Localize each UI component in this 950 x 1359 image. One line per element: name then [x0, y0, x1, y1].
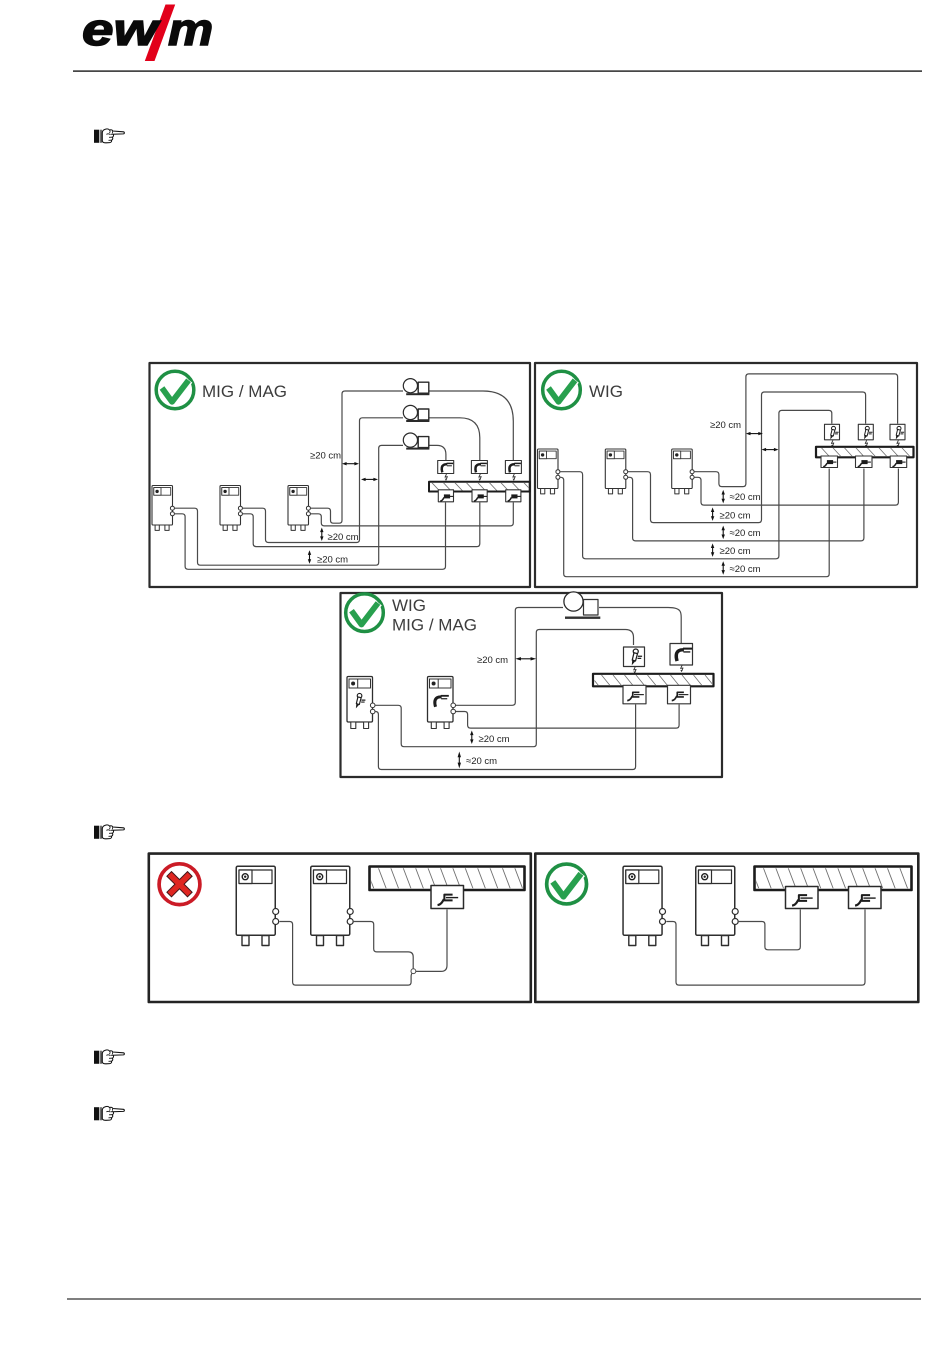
svg-text:≈20 cm: ≈20 cm: [730, 564, 761, 575]
clamp box 1: [821, 456, 838, 468]
wire clamp lead: [416, 910, 447, 972]
clamp box MIG: [668, 685, 691, 704]
header rule: [73, 70, 922, 71]
torch box WIG: [624, 647, 645, 667]
clamp box 3: [506, 490, 521, 502]
workpiece bar: [751, 867, 912, 891]
wire ps3 work lead: [311, 503, 514, 526]
junction node: [411, 969, 416, 974]
wire ps2 work lead: [353, 922, 413, 969]
power source 1: [152, 486, 174, 531]
spark arrow 2: [865, 440, 868, 446]
dim arrow bottom 2: [308, 550, 311, 564]
svg-text:WIG: WIG: [589, 382, 623, 401]
hand note icon 1: [94, 129, 124, 143]
svg-text:≥20 cm: ≥20 cm: [317, 554, 348, 565]
clamp box 1: [786, 887, 819, 909]
wire feeder3 to torch1: [429, 445, 446, 460]
wire ps3 torch cable: [694, 374, 897, 487]
panel wrong setup: [149, 854, 531, 1002]
power source 3: [672, 449, 694, 494]
wire feeder2 to torch2: [429, 418, 480, 460]
error cross icon: [159, 864, 200, 905]
logo red slash: [145, 5, 175, 62]
spark arrow 3: [513, 474, 516, 480]
ok check icon: [543, 371, 581, 409]
torch box 2: [858, 424, 873, 440]
ok check icon: [346, 594, 384, 632]
svg-text:≥20 cm: ≥20 cm: [310, 451, 341, 462]
panel frame: [535, 363, 917, 587]
workpiece bar: [810, 447, 914, 458]
wire feeder 3: [403, 433, 429, 450]
torch box 3: [890, 424, 905, 440]
dim arrow b1: [470, 731, 473, 745]
logo ewm: [82, 5, 213, 62]
spark arrow 1: [445, 474, 448, 480]
dim arrow b5: [722, 561, 725, 575]
panel frame: [149, 854, 531, 1002]
torch box 2: [471, 461, 487, 474]
svg-text:MIG / MAG: MIG / MAG: [202, 382, 287, 401]
wire ps3 feeder cable: [311, 391, 404, 523]
wire ps1 work lead: [280, 922, 414, 986]
clamp box 2: [472, 490, 487, 502]
power source 2: [605, 449, 627, 494]
torch box MIG: [670, 644, 693, 666]
power source 2: [311, 866, 353, 945]
svg-text:WIG: WIG: [392, 596, 426, 615]
power source 1: [538, 449, 560, 494]
clamp box WIG: [623, 685, 646, 704]
spark arrow 3: [897, 440, 900, 446]
wire ps1 work lead: [175, 503, 446, 570]
clamp box 2: [856, 456, 873, 468]
ok check icon: [547, 864, 587, 904]
power source 2: [696, 866, 738, 945]
dim arrow top 2: [361, 478, 378, 481]
wire ps1 work lead: [666, 910, 865, 986]
panel correct setup: [535, 854, 918, 1002]
svg-text:≈20 cm: ≈20 cm: [730, 528, 761, 539]
dim arrow b3: [722, 526, 725, 540]
svg-text:≈20 cm: ≈20 cm: [730, 492, 761, 503]
dim arrow top 2: [762, 448, 779, 451]
workpiece bar: [421, 482, 532, 492]
spark arrow 2: [479, 474, 482, 480]
wire ps2 torch cable: [628, 392, 866, 523]
wire ps2 work lead: [738, 910, 800, 950]
spark arrow mig: [680, 665, 683, 671]
panel frame: [341, 593, 723, 777]
dim arrow b2: [458, 752, 461, 769]
wire ps2 feeder cable: [243, 418, 404, 543]
power source MIG: [428, 677, 456, 729]
workpiece bar: [590, 674, 714, 687]
dim arrow top: [515, 657, 536, 660]
svg-text:≥20 cm: ≥20 cm: [328, 532, 359, 543]
dim arrow b1: [722, 490, 725, 504]
torch box 1: [438, 461, 454, 474]
clamp box: [431, 886, 464, 909]
svg-text:≥20 cm: ≥20 cm: [477, 655, 508, 666]
dim arrow bottom 1: [320, 528, 323, 542]
wire ps1 work lead: [560, 469, 829, 577]
torch box 3: [505, 461, 521, 474]
wire feeder 1: [403, 379, 429, 396]
svg-text:MIG / MAG: MIG / MAG: [392, 616, 477, 635]
svg-text:≥20 cm: ≥20 cm: [710, 420, 741, 431]
power source 3: [288, 486, 310, 531]
power source 1: [236, 866, 278, 945]
wire wig work lead: [375, 705, 636, 770]
dim arrow b2: [711, 507, 714, 521]
svg-text:m: m: [168, 6, 213, 56]
dim arrow b4: [711, 543, 714, 557]
panel frame: [535, 854, 918, 1002]
hand note icon 3: [94, 1050, 124, 1064]
hand note icon 2: [94, 825, 124, 839]
wire ps1 feeder cable: [175, 445, 404, 565]
svg-text:ew: ew: [82, 5, 161, 55]
clamp box 3: [890, 456, 907, 468]
spark arrow wig: [633, 667, 636, 673]
spark arrow 1: [831, 440, 834, 446]
clamp box 1: [438, 490, 453, 502]
power source 1: [623, 866, 665, 945]
wire feeder to mig torch: [599, 608, 681, 644]
power source WIG: [347, 677, 375, 729]
panel WIG + MIG/MAG: [341, 592, 723, 777]
wire feeder 2: [403, 405, 429, 422]
svg-text:≥20 cm: ≥20 cm: [479, 734, 510, 745]
panel MIG/MAG: [150, 363, 532, 587]
svg-text:≥20 cm: ≥20 cm: [720, 511, 751, 522]
dim arrow top 1: [746, 432, 763, 435]
wire wig torch cable: [375, 630, 634, 747]
wire ps2 work lead: [628, 469, 864, 541]
torch box 1: [825, 424, 840, 440]
wire ps1 torch cable: [560, 410, 832, 558]
workpiece bar: [366, 867, 525, 891]
svg-text:≥20 cm: ≥20 cm: [720, 546, 751, 557]
svg-text:≈20 cm: ≈20 cm: [466, 756, 497, 767]
panel frame: [150, 363, 531, 587]
wire feeder: [564, 592, 600, 619]
panel WIG: [535, 363, 917, 587]
footer rule: [67, 1298, 921, 1299]
clamp box 2: [849, 887, 882, 909]
hand note icon 4: [94, 1106, 124, 1120]
ok check icon: [156, 371, 194, 409]
dim arrow top 1: [342, 462, 359, 465]
wire ps3 work lead: [694, 469, 898, 506]
wire ps2 work lead: [243, 503, 480, 547]
power source 2: [220, 486, 242, 531]
wire mig feeder cable: [456, 608, 564, 706]
wire mig work lead: [456, 705, 680, 729]
wire feeder1 to torch3: [429, 391, 513, 460]
